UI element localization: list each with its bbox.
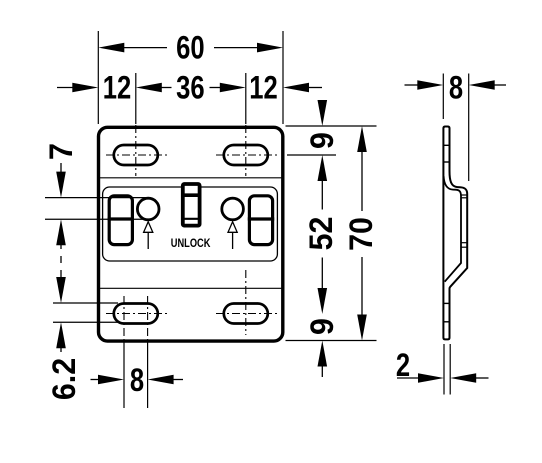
svg-text:70: 70 — [343, 217, 379, 251]
svg-text:7: 7 — [43, 143, 79, 160]
side view inner surface — [444, 176, 461, 282]
dimension 60 — [98, 31, 283, 124]
centerline right arc bottom-left slot — [147, 296, 149, 341]
dimension 36 — [136, 71, 246, 106]
svg-text:9: 9 — [304, 132, 340, 149]
bend line top — [99, 177, 283, 179]
side view slot tick top upper — [443, 144, 449, 146]
dimension 52 right — [303, 180, 339, 314]
svg-text:12: 12 — [103, 71, 131, 106]
side view front ticks upper — [461, 194, 467, 196]
bend line bottom — [99, 287, 283, 289]
dimension 9 bottom right — [304, 318, 340, 377]
dimension 2 side view — [396, 344, 489, 395]
hole circle left — [137, 198, 159, 220]
centerline vertical top-right slot — [245, 125, 247, 176]
latch slider — [181, 184, 201, 226]
extension line top slot center right — [287, 154, 336, 156]
svg-text:8: 8 — [449, 71, 463, 106]
svg-text:36: 36 — [176, 71, 204, 106]
svg-text:6.2: 6.2 — [46, 358, 82, 400]
svg-text:12: 12 — [249, 71, 277, 106]
centerline horizontal top-right slot — [216, 154, 277, 156]
plate outline (front view) — [99, 127, 283, 341]
slot top-left — [114, 145, 158, 165]
centerline vertical bottom-right slot — [245, 270, 247, 335]
slot top-right — [224, 145, 268, 165]
side view slot tick bottom lower — [443, 321, 449, 323]
svg-text:8: 8 — [130, 363, 144, 398]
centerline horizontal bottom-right slot — [216, 313, 277, 315]
svg-text:9: 9 — [304, 318, 340, 335]
side view outer profile — [443, 127, 467, 340]
svg-text:60: 60 — [176, 31, 204, 66]
extension line plate top right — [286, 125, 377, 127]
side view slot tick bottom upper — [443, 302, 449, 304]
tab left — [109, 196, 132, 245]
dimension 8 bottom — [91, 341, 184, 408]
side view front ticks lower — [461, 242, 467, 244]
dimension 12 left — [57, 71, 136, 124]
tab left divider — [108, 217, 134, 220]
dimension 6.2 left — [46, 270, 118, 400]
centerline vertical top-left slot — [135, 125, 137, 176]
extension line plate bottom right — [286, 340, 377, 342]
tab right divider — [248, 217, 274, 220]
centerline left arc bottom-left slot — [123, 296, 125, 341]
dimension 8 side view — [405, 71, 507, 181]
side view slot tick top lower — [443, 161, 449, 163]
slot bottom-right — [224, 304, 268, 324]
dimension 9 top right — [304, 100, 340, 181]
dimension 12 right — [246, 71, 322, 124]
unlock pointer right — [228, 222, 237, 249]
slot bottom-left — [114, 304, 158, 324]
centerline horizontal bottom-left slot — [106, 313, 167, 315]
hole circle right — [222, 198, 244, 220]
unlock pointer left — [144, 222, 153, 249]
svg-text:52: 52 — [303, 217, 339, 251]
svg-text:UNLOCK: UNLOCK — [171, 237, 211, 251]
dimension 7 left — [43, 143, 149, 263]
raised face inner rect — [103, 187, 278, 261]
dimension 70 right — [343, 126, 379, 341]
centerline horizontal top-left slot — [106, 154, 167, 156]
tab right — [249, 196, 272, 245]
